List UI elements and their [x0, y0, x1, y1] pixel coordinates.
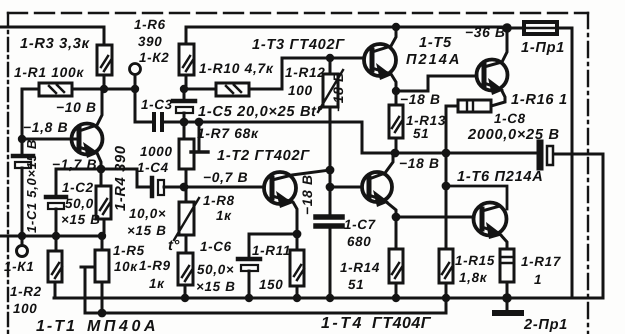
svg-text:1-R10 4,7к: 1-R10 4,7к — [199, 61, 274, 76]
resistor R14 1-R14 51 vertical — [389, 217, 403, 298]
svg-text:1к: 1к — [149, 276, 165, 291]
capacitor C3 1-C3 1000 — [154, 114, 184, 130]
svg-text:1-R1 100к: 1-R1 100к — [14, 65, 84, 80]
node C2/R2 — [52, 232, 60, 240]
svg-text:1-С2: 1-С2 — [62, 180, 94, 195]
svg-text:100: 100 — [288, 83, 313, 98]
resistor R15 1-R15 1,8k vertical — [439, 249, 453, 298]
svg-text:1-R7 68к: 1-R7 68к — [197, 126, 259, 141]
wire top rail -36V (y27) — [186, 26, 507, 29]
transistor T6 1-T6 P214A — [474, 203, 508, 250]
svg-text:10,0×: 10,0× — [129, 206, 166, 221]
resistor R9 1-R9 1k vertical — [178, 253, 193, 298]
svg-text:1-R3 3,3к: 1-R3 3,3к — [20, 36, 90, 52]
svg-text:1-R16 1: 1-R16 1 — [511, 92, 568, 108]
svg-text:−18 В: −18 В — [400, 92, 441, 107]
svg-text:−10 В: −10 В — [56, 100, 97, 115]
wire node to mid column — [184, 121, 330, 124]
svg-text:−0,7 В: −0,7 В — [203, 170, 248, 185]
border top dashed — [8, 12, 588, 14]
wire T6 collector — [446, 186, 507, 209]
svg-text:1-С7: 1-С7 — [344, 217, 376, 232]
resistor R2 1-R2 100 vertical — [48, 236, 62, 298]
resistor R13 1-R13 51 vertical — [389, 91, 403, 153]
svg-text:1-R11: 1-R11 — [252, 243, 291, 258]
node T3 base / R12 — [326, 54, 334, 62]
svg-text:50,0×: 50,0× — [197, 262, 234, 277]
svg-text:1-С1 5,0×15 В: 1-С1 5,0×15 В — [24, 139, 39, 233]
svg-text:1к: 1к — [216, 208, 232, 223]
svg-text:1-Пр1: 1-Пр1 — [521, 40, 565, 56]
transistor T1 1-T1 MP40A — [22, 89, 103, 169]
svg-text:ГТ404Г: ГТ404Г — [372, 315, 432, 332]
wire emitter node horizontals — [56, 169, 150, 187]
svg-text:1000: 1000 — [140, 144, 173, 159]
svg-text:1-Т6 П214А: 1-Т6 П214А — [457, 169, 543, 185]
svg-text:1-Т1: 1-Т1 — [36, 318, 77, 334]
resistor R17 1-R17 1 vertical — [500, 249, 514, 298]
node T4 emitter / R14 — [392, 213, 401, 222]
svg-text:51: 51 — [348, 277, 364, 292]
svg-text:1-Т5: 1-Т5 — [419, 35, 452, 51]
node T2 emitter / C6 / R11 — [293, 230, 302, 239]
svg-text:1-R6: 1-R6 — [134, 17, 166, 32]
svg-text:1-R8: 1-R8 — [203, 193, 235, 208]
svg-text:150: 150 — [259, 277, 283, 292]
svg-text:1-R9: 1-R9 — [139, 258, 171, 273]
wire input top (y27) — [0, 26, 104, 29]
svg-text:1-С8: 1-С8 — [494, 111, 526, 126]
node C7 bottom — [326, 294, 334, 302]
node T1 base — [18, 135, 26, 143]
node C1/K1 — [18, 232, 26, 240]
wire y153 to R16/C8 — [395, 152, 538, 155]
svg-text:t°: t° — [168, 238, 180, 254]
svg-text:390: 390 — [138, 34, 162, 49]
terminal 2-Pr1 — [495, 298, 521, 313]
svg-text:МП40А: МП40А — [87, 318, 159, 334]
svg-text:10к: 10к — [114, 259, 138, 274]
wire mid column x330 — [329, 122, 332, 214]
transistor T5 1-T5 P214A — [477, 28, 508, 106]
svg-text:1-R17: 1-R17 — [521, 254, 561, 269]
svg-text:×15 В: ×15 В — [196, 279, 236, 294]
wire y154 to C8 and output — [553, 154, 603, 298]
thermistor R8 1-R8 1k — [174, 187, 199, 253]
svg-text:1-Т4: 1-Т4 — [321, 315, 364, 332]
wire T4 base — [330, 186, 362, 189]
capacitor C4 1-C4 10,0x15V electrolytic horizontal — [152, 178, 264, 196]
resistor R1 1-R1 100k horizontal — [22, 83, 135, 96]
node R14 bottom — [392, 294, 400, 302]
svg-text:1-R4 390: 1-R4 390 — [113, 145, 129, 211]
svg-text:1-С4: 1-С4 — [137, 160, 169, 175]
capacitor C8 1-C8 2000,0x25V electrolytic — [540, 143, 553, 167]
svg-text:1-R12: 1-R12 — [285, 65, 326, 80]
node T3 collector rail — [392, 23, 400, 31]
svg-text:−1,7 В: −1,7 В — [52, 157, 97, 172]
resistor R11 1-R11 150 vertical — [290, 234, 304, 298]
wire T6 base — [396, 216, 474, 219]
trimmer R5 1-R5 10k with tap — [81, 236, 109, 313]
node R17 bottom / 2-Pr1 — [502, 293, 512, 303]
wire emitter node to C6 — [249, 234, 297, 257]
node R3/R1/T1 collector — [100, 85, 108, 93]
thermistor R12 1-R12 100 — [318, 58, 343, 122]
wire rail2 feedback (y313) — [85, 298, 446, 313]
node T6 collector branch — [442, 182, 451, 191]
svg-text:−18 В: −18 В — [300, 174, 315, 215]
svg-text:1-С6: 1-С6 — [200, 239, 232, 254]
node R16 lead — [442, 149, 451, 158]
node C3/C5/R7 — [180, 118, 189, 127]
svg-text:50,0: 50,0 — [65, 196, 94, 211]
svg-text:51: 51 — [413, 126, 429, 141]
node T2 base / C4 / R7 / R8 — [180, 183, 189, 192]
svg-text:1-С5 20,0×25 В: 1-С5 20,0×25 В — [198, 104, 311, 120]
svg-text:t°: t° — [311, 104, 323, 120]
node R6/C5/R10 — [180, 85, 188, 93]
svg-text:100: 100 — [13, 301, 37, 316]
resistor R4 1-R4 390 vertical — [96, 169, 111, 236]
capacitor C1 1-C1 electrolytic — [13, 139, 33, 236]
terminal K1 1-K1 — [17, 236, 28, 257]
wire T5 base — [396, 76, 477, 91]
svg-text:−1,8 В: −1,8 В — [23, 120, 68, 135]
svg-text:1-К2: 1-К2 — [139, 50, 169, 65]
svg-text:2-Пр1: 2-Пр1 — [523, 317, 568, 333]
node R9 bottom — [181, 294, 189, 302]
resistor R3 1-R3 3,3k vertical — [97, 27, 112, 89]
wire C5node to R13 bottom — [330, 122, 395, 153]
transistor T3 1-T3 GT402G — [364, 27, 396, 91]
node T4 base branch — [326, 183, 335, 192]
svg-text:П214А: П214А — [406, 52, 461, 68]
svg-text:1,8к: 1,8к — [459, 270, 488, 285]
svg-text:1-К1: 1-К1 — [4, 259, 34, 274]
svg-text:1-Т3 ГТ402Г: 1-Т3 ГТ402Г — [252, 37, 345, 53]
svg-text:1-R15: 1-R15 — [455, 253, 495, 268]
node R7 tap — [195, 118, 204, 127]
node T3 emitter / R13 / T5 base — [392, 87, 400, 95]
svg-text:−36 В: −36 В — [465, 25, 506, 40]
fuse Pr1 1-Pr1 — [507, 22, 572, 34]
node T1 emitter / C2 / R4 — [97, 165, 106, 174]
transistor T4 1-T4 GT404G — [362, 155, 396, 217]
node K2/wire — [131, 85, 139, 93]
svg-text:×15 В: ×15 В — [61, 212, 101, 227]
svg-text:×15 В: ×15 В — [127, 223, 167, 238]
capacitor C5 1-C5 20,0x25V electrolytic — [173, 89, 195, 122]
svg-text:680: 680 — [347, 234, 371, 249]
trimmer R7 1-R7 68k with tap — [179, 122, 208, 187]
resistor R10 1-R10 4,7k horizontal — [184, 83, 282, 96]
svg-text:1: 1 — [534, 272, 542, 287]
node R15/rail2 — [442, 294, 450, 302]
svg-text:2000,0×25 В: 2000,0×25 В — [467, 127, 560, 143]
node R13 bottom / T4 collector — [391, 149, 400, 158]
capacitor C7 1-C7 680 — [316, 217, 342, 298]
node C6 bottom — [245, 294, 253, 302]
capacitor C2 1-C2 50,0x15V electrolytic — [46, 169, 66, 236]
wire R1 left down to base node — [21, 89, 24, 139]
svg-text:1-R2: 1-R2 — [10, 284, 42, 299]
svg-text:1-С3: 1-С3 — [141, 97, 173, 112]
resistor R6 1-R6 390 vertical — [179, 27, 194, 89]
wire fuse down right side — [571, 28, 574, 298]
svg-text:1-R14: 1-R14 — [340, 260, 380, 275]
resistor R16 1-R16 1 horizontal — [446, 100, 491, 153]
wire input2 (y236) — [0, 235, 102, 238]
transistor T2 1-T2 GT402G — [264, 170, 330, 234]
wire rail1 ground (y298) — [54, 297, 603, 300]
wire x446 down — [445, 153, 448, 250]
node R4/R5 — [98, 232, 106, 240]
border left dashed — [7, 13, 9, 334]
node T5 collector / fuse — [502, 23, 512, 33]
svg-text:1-Т2 ГТ402Г: 1-Т2 ГТ402Г — [217, 148, 310, 164]
border right dashed — [587, 13, 589, 334]
svg-text:−18 В: −18 В — [399, 156, 440, 171]
node R5 bottom rail2 — [98, 309, 107, 318]
wire K2 node down to C3 level — [135, 89, 152, 122]
node R11 bottom — [293, 294, 301, 302]
svg-text:1-R5: 1-R5 — [113, 243, 145, 258]
wire R10 to T3 base — [282, 58, 365, 89]
capacitor C6 1-C6 50,0x15V electrolytic — [238, 259, 260, 298]
svg-text:−18 В: −18 В — [331, 71, 346, 112]
terminal K2 1-K2 — [130, 64, 141, 90]
node T2 collector — [326, 166, 335, 175]
